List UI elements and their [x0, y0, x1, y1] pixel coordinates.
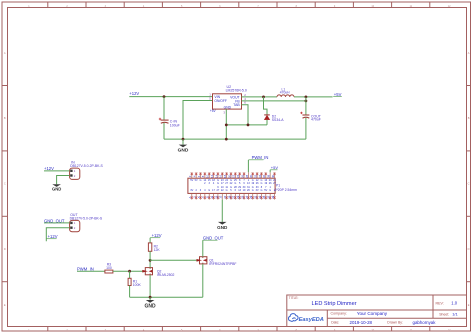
net label GND_OUT (Q1 top) — [203, 236, 224, 241]
net label GND_OUT (OUT pin 1) — [44, 218, 65, 223]
svg-text:GND_OUT: GND_OUT — [203, 236, 224, 241]
wire R3 to Q2 gate — [113, 270, 145, 272]
net label +12V (IN pin 1) — [44, 166, 54, 171]
wire ground rail (top circuit) — [164, 138, 306, 140]
svg-text:E: E — [468, 303, 470, 307]
svg-text:470uF: 470uF — [311, 117, 321, 121]
svg-text:TAB: TAB — [233, 103, 240, 107]
svg-text:+12V: +12V — [129, 91, 139, 96]
junction TAB/ground — [247, 124, 250, 127]
svg-text:G: G — [217, 182, 219, 185]
wire Q1 lower lead — [202, 264, 204, 297]
svg-text:Sheet:: Sheet: — [439, 312, 449, 316]
wire +12V to R2 — [149, 238, 151, 243]
title block texts — [289, 296, 459, 325]
junction ground rail at U2 GND — [225, 138, 228, 141]
resistor R2 12K — [148, 243, 160, 252]
wire OUT pin 2 — [46, 228, 69, 242]
ground GND (regulator) — [178, 139, 189, 153]
svg-text:+12V: +12V — [48, 234, 58, 239]
wire PWM_IN to header — [247, 160, 249, 172]
svg-text:2*20P 2.54mm: 2*20P 2.54mm — [275, 188, 298, 192]
wire Q2 source to ground rail — [149, 275, 151, 297]
svg-text:+12V: +12V — [152, 233, 162, 238]
junction output node — [305, 96, 308, 99]
wire R1 upper lead — [129, 271, 131, 278]
svg-text:GND: GND — [52, 186, 61, 191]
svg-text:100uF: 100uF — [170, 123, 180, 127]
header P1 2*20P 2.54mm — [188, 172, 275, 199]
svg-text:D: D — [4, 247, 6, 251]
pin number 3 (GND) — [223, 110, 225, 114]
junction diode cathode node — [262, 96, 265, 99]
svg-text:470uH: 470uH — [280, 90, 290, 94]
pin number 2 (VOUT) — [244, 93, 246, 97]
svg-text:P1: P1 — [276, 184, 280, 188]
wire Q2 drain to gate node — [149, 260, 151, 267]
svg-text:Date:: Date: — [331, 321, 339, 325]
wire diode anode lead — [266, 120, 268, 125]
net label +5V (output) — [333, 92, 342, 97]
svg-text:GND: GND — [178, 148, 189, 154]
svg-text:G: G — [208, 189, 210, 192]
net label PWM_IN (header) — [248, 155, 268, 160]
svg-text:5V: 5V — [264, 189, 267, 192]
wire IN pin 1 — [44, 170, 70, 172]
wire OUT pin 1 — [44, 222, 70, 224]
wire VOUT switch node — [242, 96, 278, 98]
svg-text:100: 100 — [106, 266, 112, 270]
header pin numbers (top, even) — [188, 174, 275, 178]
wire PWM_IN to R3 — [77, 270, 105, 272]
svg-text:LED Strip Dimmer: LED Strip Dimmer — [312, 301, 357, 307]
svg-text:E: E — [4, 303, 6, 307]
net label +12V (input rail) — [129, 91, 139, 96]
wire +12V rail to VIN — [129, 96, 212, 98]
diode D2 SS34-A — [264, 114, 284, 122]
wire R1 lower lead — [129, 286, 131, 298]
svg-text:GND: GND — [217, 225, 228, 230]
pin number 1 (VIN) — [209, 93, 211, 97]
svg-text:DB127V-5.0-2P-BK-S: DB127V-5.0-2P-BK-S — [70, 164, 103, 168]
title block — [287, 295, 467, 327]
wire ON/OFF to ground — [183, 101, 213, 140]
svg-text:+5V: +5V — [334, 92, 342, 97]
transistor Q2 IRLML2502 — [142, 268, 174, 277]
header no-connect X marks (bottom row) — [191, 196, 276, 198]
wire FB to output node — [242, 100, 306, 102]
junction U2 gnd / diode gnd — [225, 124, 228, 127]
svg-text:TITLE:: TITLE: — [289, 296, 299, 300]
junction ground rail at ON/OFF branch — [182, 138, 185, 141]
svg-text:G: G — [226, 189, 228, 192]
svg-text:+5V: +5V — [271, 165, 279, 170]
ground GND (header) — [217, 222, 228, 230]
svg-text:D: D — [468, 247, 470, 251]
wire C-IN upper lead — [163, 97, 165, 120]
header pin names (inside rows) — [190, 179, 276, 192]
svg-text:C: C — [4, 182, 6, 186]
svg-text:GND: GND — [145, 304, 157, 310]
svg-text:PWM_IN: PWM_IN — [252, 155, 269, 160]
svg-text:SS34-A: SS34-A — [272, 118, 284, 122]
junction R1 top — [128, 270, 131, 273]
resistor R1 100K — [128, 278, 141, 287]
svg-text:B: B — [468, 116, 470, 120]
junction gate node — [149, 259, 152, 262]
wire bottom ground rail — [130, 296, 203, 298]
wire diode cathode branch — [264, 97, 268, 115]
svg-text:5V: 5V — [190, 179, 193, 182]
resistor R3 100 — [105, 263, 113, 273]
svg-text:C: C — [468, 182, 470, 186]
wire header GND pin — [221, 200, 223, 222]
capacitor C-IN 100uF — [159, 118, 180, 128]
svg-text:A: A — [4, 51, 6, 55]
svg-text:PWM_IN: PWM_IN — [77, 266, 94, 271]
ground GND (driver stage) — [145, 297, 157, 309]
svg-text:1.0: 1.0 — [451, 301, 457, 306]
net label +12V (R2) — [150, 233, 162, 238]
transistor Q1 IRFR024NTRPBF — [197, 257, 237, 266]
ground GND (IN connector) — [52, 184, 61, 191]
svg-text:gabhornyak: gabhornyak — [413, 320, 437, 325]
svg-text:G: G — [260, 182, 262, 185]
wire Q1 upper lead — [202, 240, 204, 257]
svg-text:Drawn By:: Drawn By: — [387, 321, 403, 325]
junction ground rail at Q2 source — [149, 296, 152, 299]
wire U2 GND pin to ground rail — [225, 109, 227, 139]
header no-connect X marks (top row) — [191, 173, 276, 175]
wire R2 lower lead — [149, 251, 151, 260]
wire TAB to ground net — [242, 105, 249, 125]
svg-text:ON/OFF: ON/OFF — [214, 99, 226, 103]
svg-text:Your Company: Your Company — [357, 311, 388, 316]
svg-text:5V: 5V — [195, 179, 198, 182]
capacitor COUT 470uF — [300, 112, 322, 122]
svg-text:G: G — [269, 189, 271, 192]
wire IN pin 2 to ground — [57, 176, 70, 185]
svg-text:40: 40 — [271, 174, 275, 178]
net label +5V (header) — [270, 165, 278, 170]
regulator U2 LM2576R-5.0 — [213, 85, 247, 109]
svg-text:IRFR024NTRPBF: IRFR024NTRPBF — [209, 262, 236, 266]
pin number 5 (ON/OFF) — [209, 97, 211, 101]
svg-text:EasyEDA: EasyEDA — [299, 317, 324, 323]
wire C-IN lower lead — [163, 123, 165, 139]
svg-text:GND: GND — [224, 105, 232, 109]
svg-text:G: G — [200, 179, 202, 182]
svg-text:G: G — [234, 182, 236, 185]
svg-text:G: G — [260, 189, 262, 192]
annotation +5V under U2 — [210, 109, 217, 113]
header pin numbers (bottom, odd) — [188, 195, 275, 199]
pin number 6 (TAB) — [244, 101, 246, 105]
net label PWM_IN (input) — [77, 266, 94, 271]
junction C-IN top — [163, 95, 166, 98]
svg-text:G: G — [252, 189, 254, 192]
svg-text:3V: 3V — [190, 189, 193, 192]
svg-text:2019-10-28: 2019-10-28 — [350, 320, 373, 325]
svg-text:A: A — [468, 51, 470, 55]
wire diode anode ground run — [226, 124, 267, 126]
svg-text:REV:: REV: — [436, 302, 444, 306]
svg-text:Company:: Company: — [331, 312, 347, 316]
svg-text:39: 39 — [271, 195, 275, 199]
wire COUT lower lead to ground rail — [305, 118, 307, 139]
wire output node to COUT — [305, 97, 307, 115]
svg-text:DB127V-5.0-2P-BK-S: DB127V-5.0-2P-BK-S — [70, 216, 103, 220]
connector OUT DB127V-5.0-2P-BK-S — [70, 213, 103, 232]
svg-text:1/1: 1/1 — [452, 311, 458, 316]
wire L1 to output node — [294, 96, 333, 98]
svg-text:IRLML2502: IRLML2502 — [157, 273, 175, 277]
svg-text:B: B — [4, 116, 6, 120]
svg-text:12K: 12K — [154, 248, 161, 252]
svg-text:3V: 3V — [256, 189, 259, 192]
wire gate rail to Q1 — [150, 259, 199, 261]
junction FB node — [305, 100, 308, 103]
net label +12V (OUT pin 2) — [46, 234, 57, 239]
svg-text:100K: 100K — [133, 283, 142, 287]
svg-text:+5V: +5V — [210, 109, 217, 113]
header ref P1 and value — [275, 184, 298, 192]
connector IN DB127V-5.0-2P-BK-S — [70, 160, 104, 179]
EasyEDA logo — [288, 314, 323, 323]
inductor L1 470uH — [277, 87, 294, 97]
wire +5V stub (header) — [269, 170, 271, 173]
pin number 4 (FB) — [244, 97, 246, 101]
